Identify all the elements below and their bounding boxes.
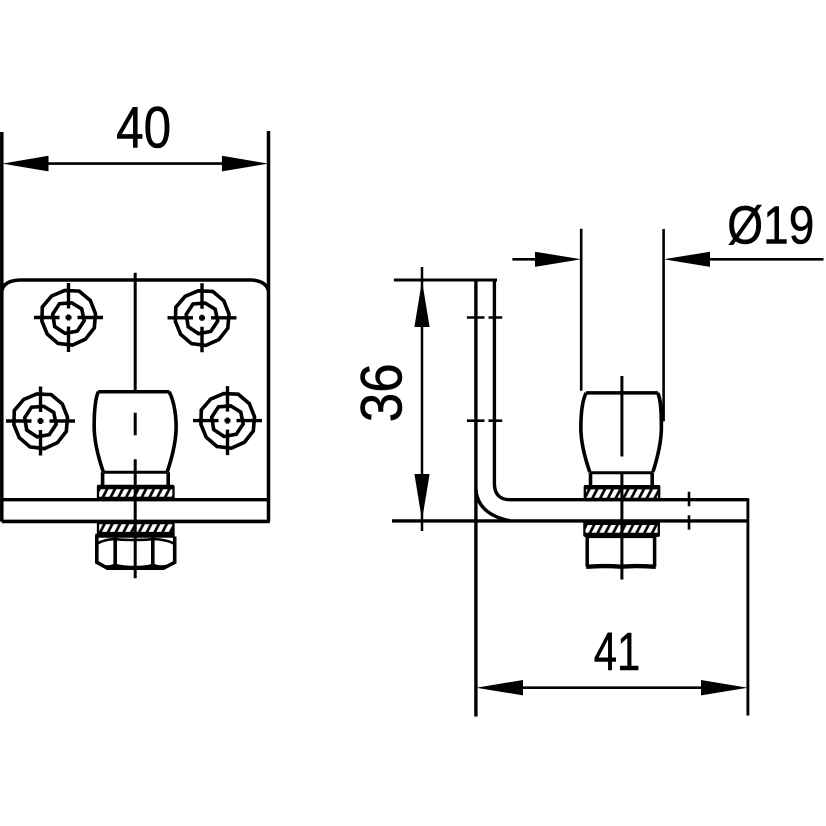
rubber buffer side view bbox=[581, 393, 662, 486]
dimension 36: top arrowhead bbox=[414, 281, 429, 327]
bracket plate front view: left edge + 40 extension line bbox=[0, 132, 4, 522]
screw hole top-left bbox=[34, 283, 103, 352]
dimension 41: right arrowhead bbox=[701, 680, 748, 695]
dimension D19: right arrowhead pointing left bbox=[664, 252, 710, 267]
bracket plate front view: right edge + 40 extension line bbox=[267, 131, 271, 522]
side profile: outer fillet bbox=[476, 489, 511, 521]
hex nut front view bbox=[95, 536, 175, 569]
centerline side view bbox=[620, 376, 623, 580]
screw hole top-right bbox=[168, 283, 237, 352]
washer side (below leg, hatched) bbox=[584, 523, 660, 535]
svg-text:40: 40 bbox=[116, 96, 171, 161]
dimension 40: line bbox=[44, 162, 226, 165]
side profile: leg end + 41 right extension line bbox=[746, 499, 749, 716]
rubber buffer front view bbox=[94, 392, 176, 487]
dimension 40: left arrowhead bbox=[2, 156, 48, 172]
dimension 41: left arrowhead bbox=[476, 680, 523, 695]
bracket plate front view: bottom of face bbox=[2, 498, 269, 501]
centerline tick on leg bbox=[688, 492, 691, 530]
bracket plate front view: bottom flange edge-on bbox=[2, 520, 270, 524]
side profile: leg bottom + 36 extension line bbox=[392, 519, 748, 522]
dimension 36: line with overshoot bbox=[421, 267, 424, 531]
side profile: leg top line bbox=[510, 498, 749, 501]
svg-text:36: 36 bbox=[350, 363, 415, 422]
svg-text:Ø19: Ø19 bbox=[727, 196, 814, 255]
washer side (above leg, hatched) bbox=[584, 487, 660, 500]
hex nut side view bbox=[586, 536, 656, 567]
dimension 40: right arrowhead bbox=[222, 156, 268, 172]
svg-text:41: 41 bbox=[594, 623, 641, 682]
dimension D19: line right part bbox=[708, 258, 824, 261]
side profile: top edge + 36 extension line bbox=[394, 279, 497, 282]
hole centerline ticks on plate (upper) bbox=[467, 316, 502, 319]
hole centerline ticks on plate (lower) bbox=[467, 419, 502, 422]
side profile: front face + 41 left extension line bbox=[474, 280, 477, 717]
bracket plate front view: top edge with rounded corners bbox=[2, 280, 269, 292]
centerline front view bbox=[134, 273, 137, 578]
screw hole bottom-right bbox=[193, 386, 262, 455]
dimension 41: line bbox=[520, 686, 704, 689]
side profile: back face with inner fillet bbox=[494, 280, 509, 500]
dimension D19: line left part bbox=[512, 258, 538, 261]
dimension 36: bottom arrowhead bbox=[414, 474, 429, 520]
screw hole bottom-left bbox=[6, 387, 75, 456]
dimension D19: extension lines bbox=[581, 229, 663, 422]
washer front (above plate, hatched) bbox=[97, 487, 173, 499]
washer front (below plate, hatched) bbox=[97, 522, 173, 534]
dimension D19: left arrowhead pointing right bbox=[535, 252, 581, 267]
